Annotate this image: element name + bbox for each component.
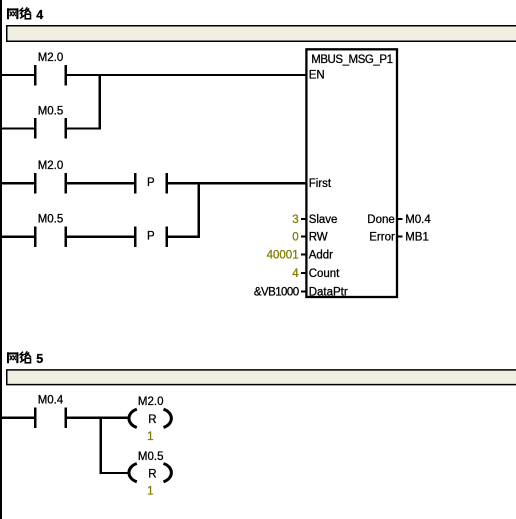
wire row4 middle — [67, 236, 134, 238]
wire row4 left — [2, 236, 34, 238]
svg-text:Done: Done — [367, 214, 395, 226]
svg-text:M0.5: M0.5 — [38, 214, 64, 226]
coil R M0.5 — [129, 464, 171, 482]
contact M2.0 row1 — [34, 65, 67, 86]
svg-text:&VB1000: &VB1000 — [254, 287, 299, 299]
wire row3 to block First — [168, 182, 306, 184]
svg-text:Count: Count — [309, 268, 340, 280]
svg-text:3: 3 — [292, 214, 298, 226]
pin Slave stub — [301, 218, 306, 220]
svg-text:M0.4: M0.4 — [405, 214, 431, 226]
P contact row3 — [134, 173, 168, 194]
svg-text:M0.5: M0.5 — [38, 105, 64, 117]
svg-text:M0.5: M0.5 — [138, 451, 164, 463]
wire row1 to block EN — [67, 74, 306, 76]
network 4 comment bar — [7, 26, 516, 42]
wire row4 to branch — [168, 236, 200, 238]
contact M0.5 row4 — [34, 226, 67, 247]
network 5 comment bar — [7, 370, 516, 385]
svg-text:M0.4: M0.4 — [38, 394, 64, 406]
contact M0.4 — [34, 408, 67, 429]
P contact row4 — [134, 226, 168, 247]
coil R M2.0 — [129, 409, 171, 427]
contact M2.0 row3 — [34, 173, 67, 194]
svg-text:First: First — [309, 178, 332, 190]
svg-text:40001: 40001 — [267, 250, 299, 262]
network 5 title 网络 — [7, 351, 31, 363]
pin Error stub — [398, 236, 403, 238]
contact M0.5 row2 — [34, 118, 67, 139]
svg-text:Addr: Addr — [309, 250, 333, 262]
svg-text:M2.0: M2.0 — [138, 396, 164, 408]
wire to coil 1 — [67, 417, 128, 419]
branch junction net5 — [99, 417, 101, 474]
svg-text:P: P — [147, 177, 155, 189]
svg-text:4: 4 — [292, 268, 299, 280]
svg-text:5: 5 — [36, 352, 43, 366]
wire net5 left — [2, 417, 34, 419]
branch junction rows 3-4 — [197, 182, 199, 238]
left power rail — [0, 0, 2, 519]
svg-text:RW: RW — [309, 232, 328, 244]
svg-text:1: 1 — [147, 431, 153, 443]
svg-text:0: 0 — [292, 232, 298, 244]
wire row2 left — [2, 128, 34, 130]
svg-text:M2.0: M2.0 — [38, 160, 64, 172]
svg-text:EN: EN — [309, 69, 325, 81]
svg-text:Error: Error — [369, 232, 395, 244]
svg-text:4: 4 — [36, 8, 43, 22]
wire row1 left — [2, 74, 34, 76]
pin Addr stub — [301, 254, 306, 256]
branch junction rows 1-2 — [99, 74, 101, 130]
pin Count stub — [301, 272, 306, 274]
svg-text:Slave: Slave — [309, 214, 338, 226]
wire row3 left — [2, 182, 34, 184]
svg-text:R: R — [148, 414, 156, 426]
svg-text:M2.0: M2.0 — [38, 52, 64, 64]
svg-text:P: P — [147, 230, 155, 242]
wire to coil 2 — [99, 472, 127, 474]
wire row2 to branch — [67, 128, 101, 130]
svg-text:1: 1 — [147, 485, 153, 497]
wire row3 middle — [67, 182, 134, 184]
pin Done stub — [398, 218, 403, 220]
svg-text:MB1: MB1 — [405, 232, 429, 244]
svg-text:MBUS_MSG_P1: MBUS_MSG_P1 — [311, 54, 392, 66]
network 4 title 网络 — [7, 7, 31, 19]
function block MBUS_MSG_P1 box — [306, 49, 397, 297]
pin DataPtr stub — [301, 290, 306, 292]
svg-text:DataPtr: DataPtr — [309, 287, 348, 299]
svg-text:R: R — [148, 469, 156, 481]
pin RW stub — [301, 236, 306, 238]
